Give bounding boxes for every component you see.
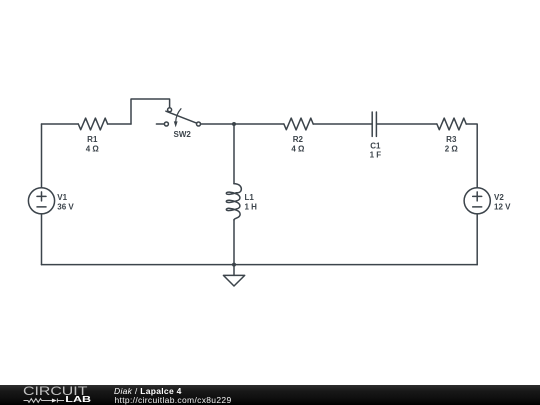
resistor R3 <box>437 118 466 130</box>
footer url text <box>115 395 232 405</box>
wire: R2 to C1 <box>313 123 371 125</box>
svg-text:12 V: 12 V <box>494 203 511 212</box>
wire: SW2 to node A <box>201 123 235 125</box>
wire: left rail upper (top-left corner to V1 top) <box>41 124 43 188</box>
svg-text:R3: R3 <box>446 135 457 144</box>
voltage source V1 <box>28 188 54 214</box>
wire: L1 bottom to bottom rail <box>233 220 235 265</box>
svg-text:C1: C1 <box>370 142 381 151</box>
capacitor C1 <box>372 112 376 136</box>
wire: R1 to jog riser <box>108 123 131 125</box>
wire: right rail lower (V2 bottom to bottom-right corner) <box>476 214 478 265</box>
wire: node A to R2 <box>234 123 284 125</box>
svg-text:4 Ω: 4 Ω <box>291 145 305 154</box>
svg-text:36 V: 36 V <box>57 203 74 212</box>
CircuitLab logo <box>18 384 118 405</box>
node A junction dot <box>232 122 236 126</box>
wire: node A to L1 top <box>233 124 235 184</box>
wire: left rail lower (V1 bottom to bottom-left corner) <box>41 214 43 265</box>
svg-text:R1: R1 <box>87 135 98 144</box>
svg-text:R2: R2 <box>293 135 304 144</box>
svg-text:V2: V2 <box>494 193 504 202</box>
svg-text:4 Ω: 4 Ω <box>86 145 100 154</box>
wire: C1 to R3 <box>377 123 437 125</box>
ground <box>223 265 244 286</box>
wire: R3 to top-right corner and right rail upper <box>466 124 477 188</box>
wire: bottom rail <box>42 264 478 266</box>
inductor L1 <box>226 184 241 220</box>
switch SW2 <box>156 108 200 128</box>
wire: top left segment (corner to R1) <box>42 123 79 125</box>
svg-text:V1: V1 <box>57 193 67 202</box>
svg-text:SW2: SW2 <box>174 130 192 139</box>
svg-text:1 F: 1 F <box>370 151 382 160</box>
resistor R1 <box>78 118 107 130</box>
voltage source V2 <box>464 188 490 214</box>
resistor R2 <box>284 118 313 130</box>
svg-text:2 Ω: 2 Ω <box>445 145 459 154</box>
wire: jog over switch (up, across, down to SW2 throw) <box>131 99 170 124</box>
svg-text:L1: L1 <box>245 193 255 202</box>
junction dot at ground node <box>232 263 236 267</box>
footer black bar <box>0 385 540 405</box>
footer title text <box>114 386 182 396</box>
svg-text:LAB: LAB <box>65 395 91 404</box>
svg-text:1 H: 1 H <box>245 203 258 212</box>
